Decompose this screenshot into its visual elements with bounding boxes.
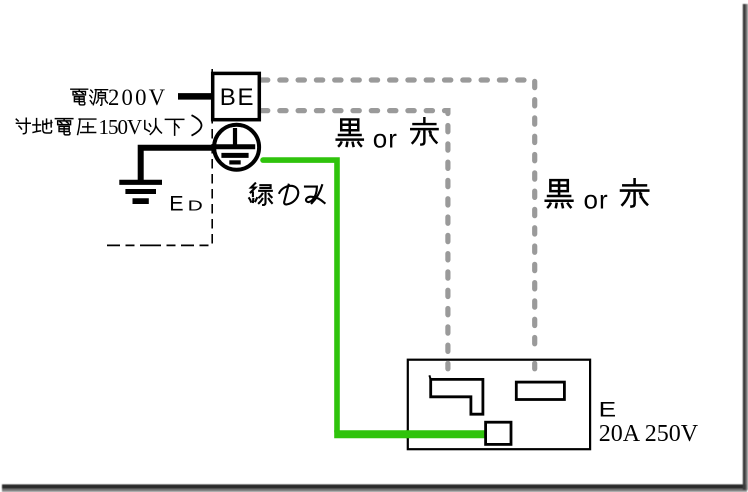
svg-text:200V: 200V bbox=[108, 85, 167, 110]
svg-text:150V: 150V bbox=[99, 115, 143, 139]
svg-text:E: E bbox=[169, 191, 183, 215]
svg-text:or: or bbox=[584, 185, 609, 215]
svg-text:or: or bbox=[373, 124, 398, 154]
svg-text:D: D bbox=[188, 197, 203, 214]
svg-text:20A 250V: 20A 250V bbox=[599, 421, 699, 447]
svg-text:BE: BE bbox=[220, 84, 255, 111]
svg-text:E: E bbox=[599, 398, 616, 422]
